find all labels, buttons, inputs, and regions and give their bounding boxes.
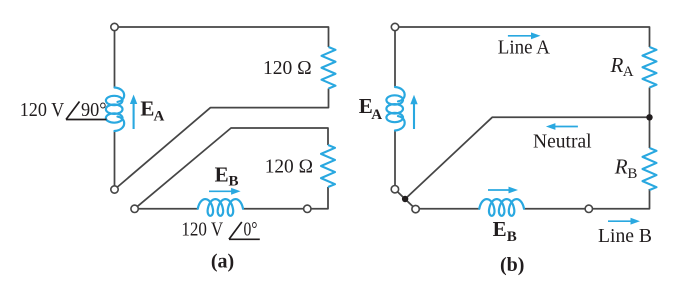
svg-text:Line A: Line A (498, 37, 551, 59)
svg-text:120 V: 120 V (20, 99, 65, 121)
svg-text:120 V: 120 V (181, 219, 223, 241)
svg-text:90°: 90° (81, 99, 107, 121)
svg-text:120 Ω: 120 Ω (263, 57, 312, 79)
svg-text:E: E (493, 217, 507, 241)
svg-text:0°: 0° (244, 219, 258, 241)
svg-text:A: A (623, 64, 634, 80)
svg-text:B: B (229, 174, 239, 190)
svg-text:E: E (140, 97, 154, 121)
svg-text:E: E (215, 162, 229, 186)
svg-text:A: A (154, 108, 165, 124)
svg-text:120 Ω: 120 Ω (265, 156, 313, 178)
svg-text:(a): (a) (211, 251, 234, 273)
svg-text:R: R (610, 53, 624, 77)
svg-text:B: B (507, 229, 517, 245)
svg-text:B: B (627, 166, 637, 182)
svg-text:R: R (614, 154, 628, 178)
svg-text:(b): (b) (500, 254, 524, 276)
svg-text:A: A (371, 107, 382, 123)
svg-text:Line B: Line B (598, 225, 652, 247)
svg-text:Neutral: Neutral (533, 130, 592, 152)
